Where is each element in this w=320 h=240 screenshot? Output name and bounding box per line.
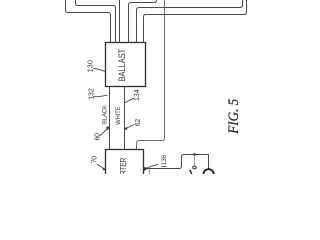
wire L2 top-left inner — [76, 0, 116, 43]
svg-text:INVERTER: INVERTER — [118, 158, 128, 174]
svg-text:70: 70 — [92, 156, 99, 164]
wire long right vertical drop — [137, 0, 165, 150]
contact drop line — [194, 155, 196, 166]
lamp circle — [203, 169, 213, 179]
wire R1 — [129, 0, 157, 43]
leader for 70 — [97, 164, 105, 170]
inverter box 70 — [106, 150, 144, 180]
lamp glass arc — [190, 170, 192, 174]
junction dot — [193, 153, 196, 156]
leader for 62 with arrowhead — [126, 124, 134, 128]
leader for 134 — [125, 98, 134, 103]
svg-text:BLACK: BLACK — [102, 105, 109, 124]
wire R2 — [137, 0, 243, 43]
wire M straight vertical — [119, 0, 121, 43]
small contact circle — [193, 166, 197, 169]
dash under 136 — [162, 165, 167, 167]
ballast box 130 — [106, 43, 146, 87]
svg-text:62: 62 — [135, 119, 142, 127]
svg-text:136: 136 — [161, 154, 168, 165]
svg-text:134: 134 — [134, 89, 141, 101]
svg-text:BALLAST: BALLAST — [117, 48, 127, 81]
wire 136 lead from inverter to lamp — [144, 155, 209, 170]
leader for 130 — [93, 69, 105, 72]
leader for 60 with arrowhead — [100, 128, 109, 136]
wire black — [109, 87, 111, 150]
svg-text:FIG. 5: FIG. 5 — [226, 99, 242, 135]
leader for 136 with arrowhead — [147, 164, 158, 168]
leader for 132 — [93, 95, 107, 96]
stub wire below 136 lead — [148, 169, 150, 174]
svg-text:60: 60 — [94, 133, 101, 141]
svg-text:130: 130 — [88, 60, 95, 72]
svg-text:WHITE: WHITE — [115, 106, 122, 125]
wire white — [124, 87, 126, 150]
wire L1 top-left outer — [66, 0, 111, 43]
svg-text:132: 132 — [88, 88, 95, 100]
wire R3 — [144, 0, 247, 43]
